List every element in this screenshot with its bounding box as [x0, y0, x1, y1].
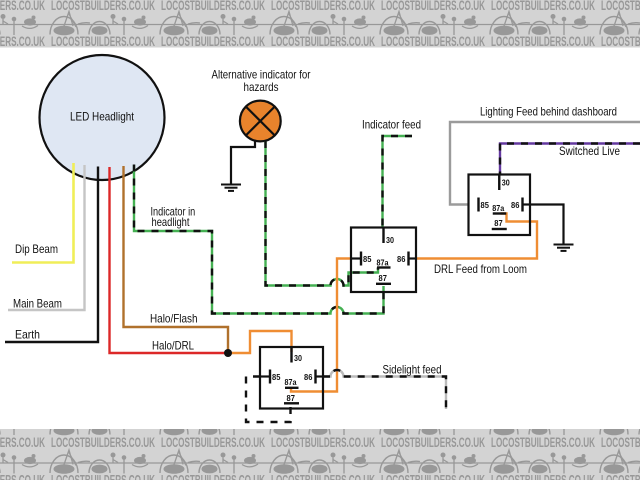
bottom watermark banner	[0, 412, 640, 480]
svg-text:Earth: Earth	[15, 328, 40, 342]
junction node Halo/DRL	[224, 349, 232, 357]
svg-text:Halo/Flash: Halo/Flash	[150, 312, 198, 326]
svg-text:30: 30	[294, 353, 302, 363]
svg-text:30: 30	[502, 178, 510, 188]
wire earth (black)	[5, 167, 98, 343]
svg-text:Lighting Feed behind dashboard: Lighting Feed behind dashboard	[480, 105, 617, 119]
indicator lamp symbol	[240, 101, 281, 142]
ground lamp	[221, 185, 241, 191]
wire relay1 87a to relay2 85 (orange)	[291, 259, 351, 392]
svg-text:Main Beam: Main Beam	[13, 297, 62, 311]
wire Halo/DRL (red)	[110, 167, 229, 353]
svg-text:Dip Beam: Dip Beam	[15, 242, 58, 256]
wire switched live (purple dashed)	[500, 144, 640, 175]
svg-text:85: 85	[363, 254, 372, 264]
svg-text:86: 86	[397, 254, 406, 264]
svg-text:Indicator feed: Indicator feed	[362, 118, 421, 132]
lamp earth wire	[231, 140, 255, 184]
svg-text:87a: 87a	[492, 203, 504, 213]
wire dip beam (yellow)	[12, 163, 74, 263]
svg-text:85: 85	[272, 372, 281, 382]
relay U2 middle	[351, 228, 416, 293]
relay U1 bottom	[260, 347, 323, 409]
wire lamp to relay2 87a (green dashed)	[266, 141, 379, 286]
svg-text:87: 87	[379, 273, 388, 283]
svg-text:86: 86	[511, 200, 520, 210]
svg-text:Switched Live: Switched Live	[559, 144, 620, 158]
wire indicator feed (green dashed)	[383, 136, 413, 228]
svg-text:87a: 87a	[377, 257, 389, 267]
svg-text:87: 87	[494, 218, 503, 228]
svg-text:87: 87	[287, 393, 296, 403]
wire relay2 86 to relay3 87a / DRL feed (orange)	[416, 214, 537, 259]
svg-text:86: 86	[304, 372, 313, 382]
top watermark banner	[0, 0, 640, 49]
ground relay3	[554, 245, 574, 251]
svg-text:LED Headlight: LED Headlight	[70, 110, 135, 124]
wire sidelight feed (grey dashed)	[323, 370, 446, 409]
wire relay3 86 to ground	[530, 205, 564, 244]
svg-text:87a: 87a	[285, 377, 297, 387]
svg-text:DRL Feed from Loom: DRL Feed from Loom	[434, 262, 527, 276]
svg-text:Sidelight feed: Sidelight feed	[383, 363, 442, 377]
wire junction to relay1 pin30 (orange)	[228, 331, 292, 353]
wire lighting feed (grey)	[450, 122, 640, 205]
wire relay1 85 to 87 (black dashed)	[246, 377, 291, 423]
svg-text:hazards: hazards	[244, 80, 279, 94]
wire Halo/Flash (brown)	[124, 166, 229, 351]
relay U3 right	[469, 175, 531, 236]
wire main beam (grey)	[8, 165, 85, 310]
svg-text:85: 85	[481, 200, 490, 210]
wire indicator in headlight (green dashed) to relay2 87	[134, 165, 384, 314]
svg-text:30: 30	[386, 235, 394, 245]
svg-text:headlight: headlight	[152, 215, 191, 229]
svg-text:Halo/DRL: Halo/DRL	[152, 339, 194, 353]
LED headlight lamp	[40, 55, 165, 180]
